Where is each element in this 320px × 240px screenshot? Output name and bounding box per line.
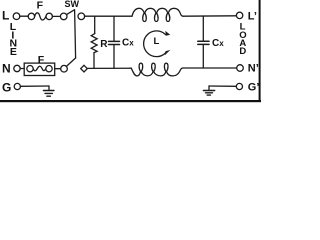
common-mode choke L top winding — [132, 8, 183, 21]
svg-text:L’: L’ — [248, 11, 257, 23]
capacitor Cx1 plates — [109, 40, 120, 42]
N rail: choke to N' terminal — [183, 67, 237, 69]
terminal L — [13, 13, 20, 20]
svg-text:C: C — [212, 38, 219, 49]
svg-text:G’: G’ — [248, 81, 260, 93]
top rail: choke to L' terminal — [183, 15, 236, 17]
wire G terminal to ground — [20, 85, 49, 87]
terminal G' — [236, 83, 242, 89]
common-mode choke L bottom winding — [131, 63, 183, 76]
fuse F right circle — [46, 13, 52, 19]
capacitor Cx2 plates — [198, 40, 209, 42]
svg-text:N’: N’ — [248, 63, 259, 75]
top rail: SW contact to choke — [85, 15, 132, 17]
fuse (N line) wave — [33, 66, 46, 71]
fuse F (L line): left circle — [28, 13, 34, 19]
terminal N' — [237, 65, 244, 72]
rotation arrowhead bottom — [165, 50, 171, 55]
svg-text:L: L — [2, 8, 9, 22]
ground (left) bars — [43, 90, 54, 92]
N rail: contact to choke — [87, 67, 131, 69]
wire Cx2 to N rail — [202, 45, 204, 68]
node: Cx1 branch top — [113, 16, 115, 41]
svg-text:R: R — [100, 39, 108, 50]
svg-text:F: F — [37, 0, 44, 12]
terminal G — [14, 83, 20, 89]
wire fuse box to N switch pole — [55, 68, 61, 70]
svg-text:D: D — [239, 46, 246, 57]
switch linkage (to N-line switch) — [75, 10, 76, 58]
terminal N — [14, 65, 20, 71]
N-line switch blade — [66, 58, 75, 67]
node: Cx2 branch top — [202, 16, 204, 41]
wire R to N rail — [93, 53, 95, 69]
switch SW blade — [67, 10, 75, 15]
border bottom — [0, 100, 261, 102]
svg-text:L: L — [154, 36, 160, 47]
rotation arrowhead top — [165, 31, 170, 36]
N-line switch pole circle — [61, 65, 68, 72]
terminal L' — [236, 12, 242, 18]
resistor R zigzag — [91, 33, 97, 52]
wire L terminal to fuse F — [20, 15, 28, 17]
svg-text:x: x — [129, 39, 134, 48]
wire ground to G' terminal — [209, 85, 236, 87]
svg-text:E: E — [10, 46, 17, 58]
wire Cx1 to N rail — [113, 45, 115, 68]
N-line switch contact (diamond) — [81, 65, 88, 72]
wire N terminal to fuse box — [20, 68, 24, 70]
rotation arrow arc around L — [144, 31, 166, 57]
ground (left) stem — [48, 86, 50, 91]
ground (right) bars — [203, 90, 214, 92]
fuse (N line) right circle — [46, 66, 52, 72]
fuse F (N line) box — [24, 63, 55, 75]
svg-text:G: G — [2, 80, 11, 94]
svg-text:F: F — [38, 54, 45, 66]
switch SW pole circle — [60, 13, 67, 20]
svg-text:C: C — [122, 38, 129, 49]
fuse F wave — [35, 13, 46, 20]
svg-text:N: N — [2, 61, 11, 75]
wire fuse to switch pole — [52, 15, 60, 17]
ground (right) stem — [208, 86, 210, 91]
switch SW contact circle — [78, 13, 85, 20]
fuse (N line) left circle — [27, 66, 33, 72]
svg-text:SW: SW — [65, 0, 80, 9]
node: R branch top — [94, 16, 96, 33]
svg-text:x: x — [219, 39, 224, 48]
border right — [259, 0, 261, 102]
